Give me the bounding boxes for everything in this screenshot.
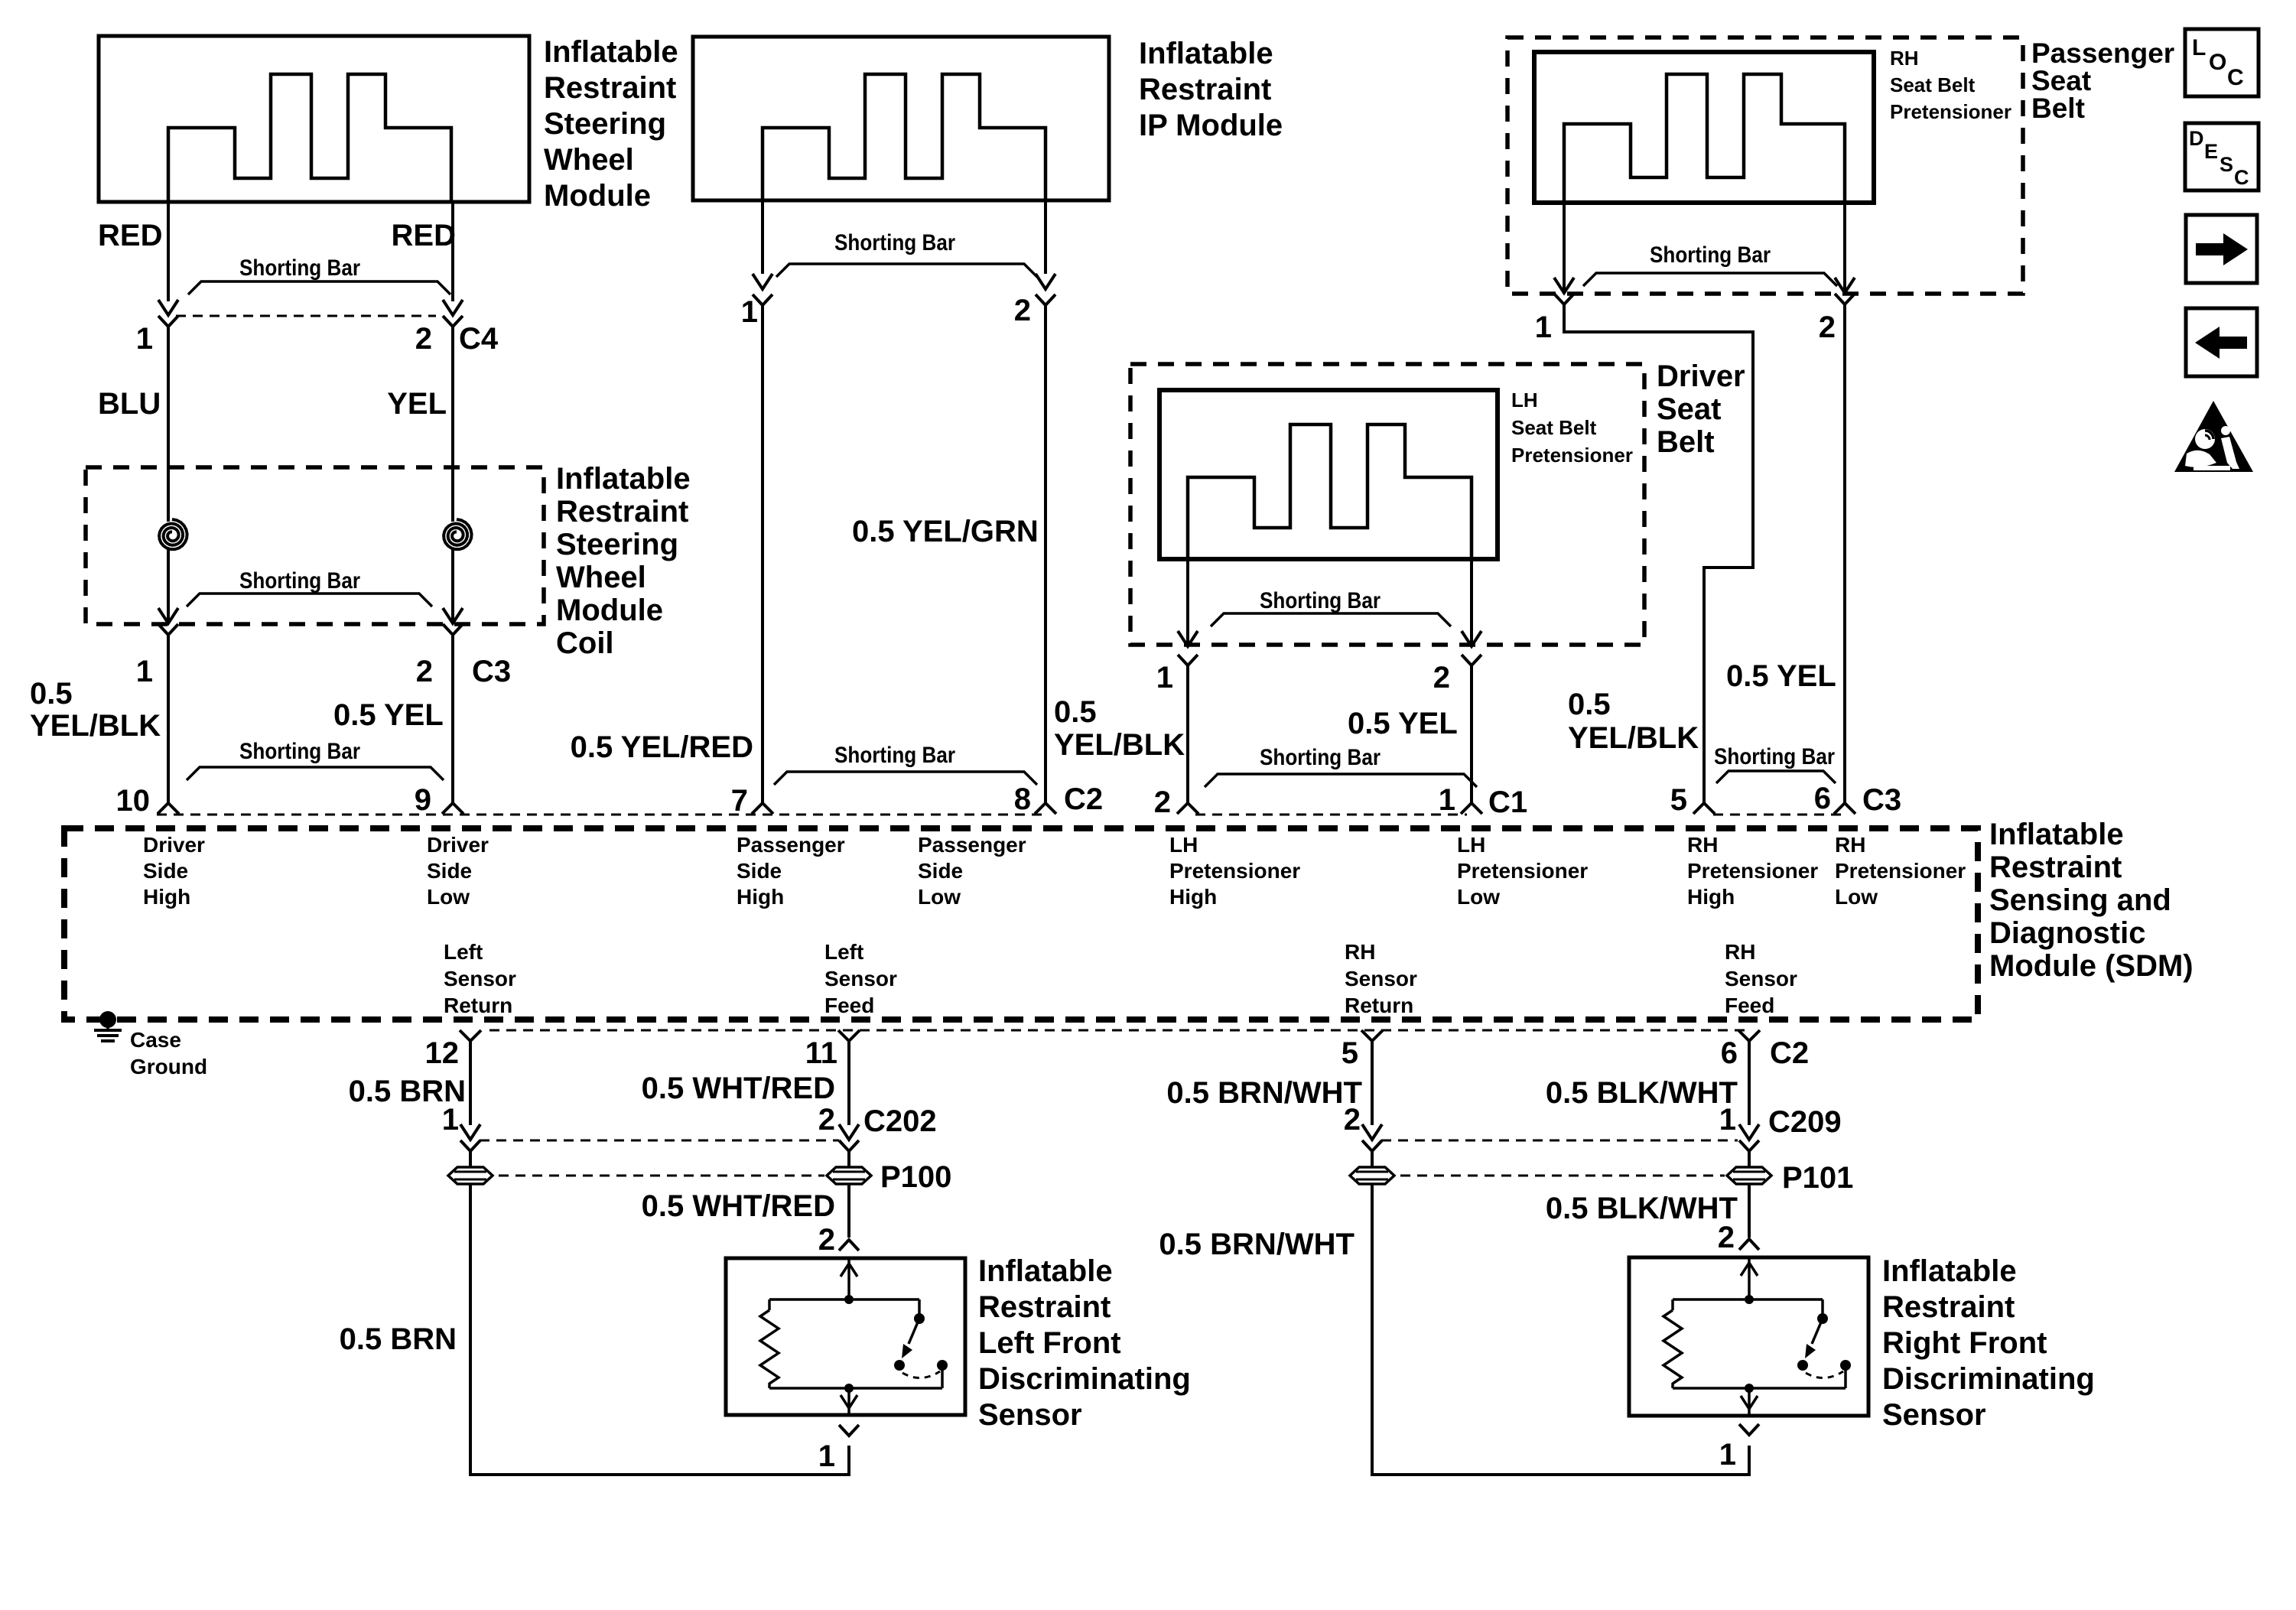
shorting bar symbol (LH pretensioner) — [1211, 613, 1451, 626]
wire 0.5 WHT/RED (P100 to sensor pin2) — [847, 1184, 850, 1238]
svg-text:2: 2 — [416, 655, 433, 688]
svg-text:Pretensioner: Pretensioner — [1890, 100, 2011, 123]
svg-text:Module (SDM): Module (SDM) — [1989, 949, 2194, 983]
sensor bottom lead with down arrow — [1748, 1388, 1751, 1416]
svg-text:Restraint: Restraint — [1139, 73, 1271, 106]
wire 0.5 YEL (RH pret pin2 to SDM pin6) — [1843, 304, 1846, 803]
icon box left arrow — [2186, 308, 2257, 376]
connector C4 dashed line — [176, 315, 436, 317]
switch moving contact dot — [894, 1360, 905, 1371]
wire 0.5 BLK/WHT (P101 to sensor pin2) — [1748, 1184, 1751, 1238]
svg-text:Ground: Ground — [130, 1055, 207, 1078]
svg-text:10: 10 — [116, 784, 151, 818]
svg-text:Side: Side — [427, 859, 472, 883]
svg-text:RED: RED — [98, 219, 162, 252]
P101 dashed line — [1400, 1175, 1725, 1177]
dashed box: Passenger Seat Belt — [1507, 37, 2023, 294]
svg-text:Pretensioner: Pretensioner — [1687, 859, 1818, 883]
svg-text:Discriminating: Discriminating — [1882, 1362, 2095, 1396]
switch right contact lead — [1844, 1365, 1847, 1388]
svg-text:Return: Return — [444, 994, 512, 1017]
svg-text:Wheel: Wheel — [544, 143, 634, 177]
svg-text:Sensor: Sensor — [1882, 1398, 1986, 1432]
chevron SDM pin12 — [460, 1030, 481, 1041]
sensor top branch — [769, 1298, 919, 1301]
svg-text:Seat Belt: Seat Belt — [1890, 73, 1976, 96]
arrow IP pin2 — [1036, 274, 1055, 289]
svg-text:Inflatable: Inflatable — [556, 462, 691, 496]
svg-text:Passenger: Passenger — [918, 833, 1026, 857]
wire (C209 pin2 to P101) — [1371, 1151, 1374, 1167]
coil symbol (driver low) — [444, 519, 472, 549]
arrow C4 pin1 — [158, 300, 178, 315]
svg-text:Wheel: Wheel — [556, 561, 646, 594]
squib (LH seat belt pretensioner) — [1188, 424, 1472, 559]
svg-text:YEL: YEL — [387, 387, 447, 421]
svg-text:C3: C3 — [472, 655, 511, 688]
chevron left sensor pin1 — [839, 1425, 859, 1436]
wire RED (driver low, module to C4 pin2) — [451, 202, 454, 301]
svg-text:0.5 BLK/WHT: 0.5 BLK/WHT — [1546, 1192, 1738, 1225]
svg-text:P101: P101 — [1782, 1161, 1853, 1195]
chevron SDM pin2 — [1177, 803, 1198, 814]
svg-text:Shorting Bar: Shorting Bar — [1714, 744, 1835, 769]
sensor box: Inflatable Restraint Right Front Discriminating Sensor — [1629, 1257, 1868, 1416]
svg-text:0.5: 0.5 — [1054, 695, 1097, 729]
svg-text:Shorting Bar: Shorting Bar — [834, 743, 955, 768]
dashed box: Inflatable Restraint Steering Wheel Module Coil — [86, 467, 544, 624]
svg-text:1: 1 — [1156, 661, 1173, 694]
chevron SDM pin1 — [1461, 803, 1482, 814]
svg-text:Inflatable: Inflatable — [1139, 37, 1273, 70]
wire 0.5 YEL/BLK (C3 to SDM pin10) — [167, 635, 170, 803]
svg-text:0.5 YEL: 0.5 YEL — [333, 698, 444, 732]
chevron IP pin1 — [753, 294, 772, 305]
module box: Inflatable Restraint IP Module — [693, 37, 1109, 200]
svg-text:Belt: Belt — [1657, 425, 1715, 459]
svg-text:RH: RH — [1725, 940, 1755, 964]
switch arm with arrow — [1812, 1319, 1823, 1344]
wire YEL (C4 to coil) — [451, 327, 454, 522]
svg-text:0.5 BRN/WHT: 0.5 BRN/WHT — [1159, 1228, 1355, 1261]
svg-text:Right Front: Right Front — [1882, 1326, 2047, 1360]
arrow C209 pin1 — [1739, 1124, 1759, 1140]
wire 0.5 BRN (pin12 to C202) — [469, 1041, 472, 1125]
svg-text:2: 2 — [818, 1223, 835, 1257]
chevron SDM pin6 — [1834, 803, 1855, 814]
svg-text:L: L — [2192, 35, 2206, 60]
svg-text:S: S — [2220, 153, 2233, 176]
wire 0.5 YEL/BLK (to SDM pin2) — [1186, 665, 1189, 803]
svg-text:C4: C4 — [459, 322, 499, 356]
svg-text:Pretensioner: Pretensioner — [1457, 859, 1588, 883]
svg-text:0.5: 0.5 — [1568, 688, 1611, 721]
ground symbol (case ground) — [106, 1020, 109, 1030]
shorting bar symbol (SDM 2-1) — [1205, 774, 1477, 787]
svg-text:2: 2 — [1819, 311, 1836, 344]
P100 dashed line — [499, 1175, 824, 1177]
grommet P101 left — [1350, 1167, 1394, 1184]
chevron left sensor pin2 — [839, 1240, 859, 1251]
svg-text:Passenger: Passenger — [737, 833, 845, 857]
svg-text:Restraint: Restraint — [978, 1290, 1111, 1324]
wire (IP module pin1) — [761, 200, 764, 274]
chevron C4 pin1 — [158, 316, 178, 327]
arrow LH pret pin2 — [1462, 631, 1481, 646]
arrow C4 pin2 — [443, 300, 463, 315]
svg-text:1: 1 — [442, 1103, 459, 1137]
arrow LH pret pin1 — [1178, 631, 1198, 646]
svg-text:Steering: Steering — [544, 107, 666, 141]
svg-text:0.5 BLK/WHT: 0.5 BLK/WHT — [1546, 1076, 1738, 1110]
svg-text:1: 1 — [136, 322, 153, 356]
shorting bar symbol (C4) — [188, 281, 450, 294]
svg-text:9: 9 — [415, 783, 431, 817]
svg-text:Diagnostic: Diagnostic — [1989, 916, 2145, 950]
svg-text:YEL/BLK: YEL/BLK — [30, 709, 161, 743]
sensor top lead with up arrow — [847, 1258, 850, 1299]
svg-text:C209: C209 — [1768, 1105, 1842, 1139]
svg-text:E: E — [2204, 140, 2218, 163]
chevron SDM pin6 C2 — [1738, 1030, 1760, 1041]
svg-text:P100: P100 — [880, 1160, 951, 1194]
grommet P100 right — [827, 1167, 871, 1184]
svg-text:Low: Low — [1457, 885, 1500, 909]
module box: RH Seat Belt Pretensioner — [1534, 52, 1874, 203]
svg-text:1: 1 — [741, 295, 758, 329]
chevron right sensor pin1 — [1739, 1424, 1759, 1435]
warning triangle icon (airbag) — [2174, 401, 2253, 472]
svg-text:1: 1 — [1719, 1103, 1736, 1137]
svg-text:0.5 BRN/WHT: 0.5 BRN/WHT — [1166, 1076, 1362, 1110]
svg-text:1: 1 — [136, 655, 153, 688]
connector C202 dashed line — [480, 1140, 839, 1142]
chevron RH pret pin2 — [1835, 294, 1855, 304]
module box: LH Seat Belt Pretensioner — [1159, 390, 1498, 559]
icon box DESC — [2185, 123, 2259, 190]
junction dot top — [844, 1295, 854, 1304]
switch arm with arrow — [909, 1319, 919, 1344]
svg-text:Driver: Driver — [1657, 359, 1745, 393]
svg-text:6: 6 — [1721, 1036, 1738, 1070]
shorting bar symbol (SDM 10-9) — [187, 767, 444, 780]
wire (LH pretensioner pin2) — [1470, 559, 1473, 644]
switch right contact lead — [941, 1365, 944, 1388]
chevron SDM pin10 — [158, 803, 179, 814]
switch fixed contact dot — [914, 1313, 925, 1324]
svg-text:High: High — [143, 885, 190, 909]
svg-text:Side: Side — [918, 859, 963, 883]
shorting bar symbol (SDM 5-6) — [1716, 771, 1836, 783]
svg-text:0.5 YEL/GRN: 0.5 YEL/GRN — [852, 515, 1039, 548]
svg-text:RH: RH — [1835, 833, 1865, 857]
svg-text:Side: Side — [737, 859, 782, 883]
svg-text:Pretensioner: Pretensioner — [1169, 859, 1300, 883]
svg-text:2: 2 — [818, 1103, 835, 1137]
wire (RH pretensioner pin1) — [1563, 203, 1566, 294]
svg-text:Sensor: Sensor — [824, 967, 897, 990]
svg-text:Sensor: Sensor — [1725, 967, 1797, 990]
svg-text:C2: C2 — [1770, 1036, 1809, 1070]
svg-text:High: High — [737, 885, 784, 909]
svg-text:6: 6 — [1814, 782, 1831, 815]
svg-text:2: 2 — [415, 322, 432, 356]
svg-text:Coil: Coil — [556, 626, 614, 660]
resistor (parallel) — [768, 1299, 771, 1310]
arrow C202 pin2 — [839, 1124, 859, 1140]
svg-text:1: 1 — [1719, 1438, 1736, 1472]
chevron C202 pin2 — [839, 1140, 859, 1151]
icon box right arrow — [2186, 215, 2257, 283]
svg-text:Feed: Feed — [1725, 994, 1774, 1017]
svg-text:Pretensioner: Pretensioner — [1835, 859, 1966, 883]
chevron C4 pin2 — [443, 316, 463, 327]
icon box LOC — [2185, 29, 2259, 96]
svg-text:Return: Return — [1345, 994, 1413, 1017]
sensor top lead with up arrow — [1748, 1257, 1751, 1299]
junction dot bottom — [844, 1384, 854, 1393]
chevron IP pin2 — [1036, 294, 1055, 305]
svg-text:0.5 WHT/RED: 0.5 WHT/RED — [642, 1072, 835, 1105]
sensor bottom branch — [769, 1387, 942, 1390]
shorting bar symbol (coil) — [187, 594, 432, 607]
svg-text:0.5 BRN: 0.5 BRN — [340, 1322, 457, 1356]
svg-text:Driver: Driver — [427, 833, 489, 857]
case ground node (dot) — [99, 1011, 116, 1028]
wire 0.5 BRN/WHT (pin5 to C209) — [1371, 1041, 1374, 1125]
svg-text:Sensor: Sensor — [1345, 967, 1417, 990]
svg-text:5: 5 — [1670, 783, 1687, 817]
svg-text:Inflatable: Inflatable — [544, 35, 678, 69]
chevron SDM pin7 — [752, 803, 773, 814]
svg-text:1: 1 — [1439, 783, 1455, 817]
svg-text:Inflatable: Inflatable — [1882, 1254, 2017, 1288]
wire 0.5 BRN/WHT (P101 to sensor loop) — [1372, 1184, 1749, 1475]
wire 0.5 BLK/WHT (pin6 to C209) — [1748, 1041, 1751, 1125]
svg-text:High: High — [1687, 885, 1735, 909]
svg-text:LH: LH — [1511, 389, 1538, 411]
svg-text:LH: LH — [1169, 833, 1198, 857]
svg-text:Side: Side — [143, 859, 188, 883]
shorting bar symbol (RH pretensioner) — [1583, 273, 1837, 286]
svg-text:Shorting Bar: Shorting Bar — [1260, 745, 1381, 770]
svg-text:Passenger: Passenger — [2031, 37, 2174, 69]
svg-text:Pretensioner: Pretensioner — [1511, 444, 1633, 467]
svg-text:Shorting Bar: Shorting Bar — [239, 739, 360, 764]
svg-text:0.5 YEL: 0.5 YEL — [1348, 707, 1458, 740]
sensor top branch — [1673, 1298, 1823, 1301]
svg-text:High: High — [1169, 885, 1217, 909]
connector C3 dashed line — [1713, 814, 1842, 816]
module box: Inflatable Restraint Steering Wheel Module — [99, 36, 529, 202]
shorting bar symbol (IP module) — [776, 264, 1037, 277]
svg-text:Seat: Seat — [1657, 392, 1722, 426]
switch right contact dot — [937, 1360, 948, 1371]
svg-text:7: 7 — [731, 784, 748, 818]
svg-text:Shorting Bar: Shorting Bar — [239, 255, 360, 281]
svg-text:Seat: Seat — [2031, 65, 2091, 96]
svg-text:C202: C202 — [863, 1104, 937, 1138]
arrow IP pin1 — [753, 274, 772, 289]
svg-text:RH: RH — [1345, 940, 1375, 964]
coil symbol (driver high) — [159, 519, 187, 549]
svg-text:0.5 YEL/RED: 0.5 YEL/RED — [571, 730, 753, 764]
svg-text:O: O — [2209, 50, 2226, 75]
squib (IP module) — [763, 74, 1046, 200]
dashed box: Inflatable Restraint Sensing and Diagnostic Module (SDM) — [64, 828, 1978, 1020]
svg-text:C: C — [2227, 65, 2244, 90]
svg-text:Sensing and: Sensing and — [1989, 883, 2171, 917]
chevron right sensor pin2 — [1739, 1239, 1759, 1250]
chevron C209 pin2 — [1362, 1140, 1382, 1151]
arrow C3 pin1 — [158, 608, 178, 623]
arrow C202 pin1 — [460, 1124, 480, 1140]
switch travel dashed arc — [1806, 1371, 1843, 1378]
svg-text:Low: Low — [1835, 885, 1878, 909]
grommet P100 left — [448, 1167, 493, 1184]
chevron C202 pin1 — [460, 1140, 480, 1151]
squib (RH seat belt pretensioner) — [1564, 74, 1845, 203]
svg-text:Inflatable: Inflatable — [1989, 818, 2124, 851]
wire 0.5 YEL/RED (to SDM pin7) — [761, 305, 764, 803]
svg-text:Module: Module — [556, 594, 663, 627]
connector C209 dashed line — [1381, 1140, 1738, 1142]
wire 0.5 WHT/RED (pin11 to C202) — [847, 1041, 850, 1125]
arrow C3 pin2 — [443, 608, 463, 623]
svg-text:2: 2 — [1433, 661, 1450, 694]
switch fixed contact dot — [1817, 1313, 1828, 1324]
svg-text:Case: Case — [130, 1028, 181, 1052]
arrow RH pret pin2 — [1835, 278, 1855, 293]
wire (C202 pin1 to P100) — [469, 1151, 472, 1167]
svg-text:Sensor: Sensor — [978, 1398, 1082, 1432]
svg-text:C2: C2 — [1064, 782, 1103, 816]
chevron LH pret pin1 — [1178, 655, 1198, 665]
chevron C3 pin1 — [158, 624, 178, 635]
svg-text:11: 11 — [805, 1036, 837, 1070]
sensor bottom lead with down arrow — [847, 1388, 850, 1415]
svg-text:1: 1 — [818, 1439, 835, 1473]
wire (coil to C3 pin1) — [167, 549, 170, 621]
svg-text:Low: Low — [918, 885, 961, 909]
wire 0.5 YEL (to SDM pin1) — [1470, 665, 1473, 803]
arrow C209 pin2 — [1362, 1124, 1382, 1140]
resistor (parallel) — [1671, 1299, 1674, 1310]
sensor box: Inflatable Restraint Left Front Discriminating Sensor — [726, 1258, 965, 1415]
svg-text:Restraint: Restraint — [1989, 851, 2122, 884]
svg-text:C3: C3 — [1862, 783, 1901, 817]
wire 0.5 YEL/GRN then 0.5 YEL/BLK (to SDM pin8) — [1044, 305, 1047, 803]
svg-text:Restraint: Restraint — [544, 71, 676, 105]
svg-text:2: 2 — [1154, 785, 1171, 819]
svg-text:Low: Low — [427, 885, 470, 909]
svg-text:YEL/BLK: YEL/BLK — [1568, 721, 1699, 755]
svg-text:0.5: 0.5 — [30, 677, 73, 711]
svg-text:Shorting Bar: Shorting Bar — [239, 568, 360, 594]
svg-text:1: 1 — [1535, 311, 1552, 344]
svg-text:D: D — [2189, 127, 2204, 150]
shorting bar symbol (SDM 7-8) — [774, 772, 1037, 785]
chevron SDM pin11 — [838, 1030, 860, 1041]
sensor bottom branch — [1673, 1387, 1846, 1390]
svg-text:Seat Belt: Seat Belt — [1511, 416, 1597, 439]
wire (C209 pin1 to P101) — [1748, 1151, 1751, 1167]
squib (steering wheel module) — [168, 74, 451, 202]
svg-text:Left: Left — [444, 940, 483, 964]
svg-text:Shorting Bar: Shorting Bar — [1650, 242, 1771, 268]
wire (RH pretensioner pin2) — [1843, 203, 1846, 294]
svg-text:Discriminating: Discriminating — [978, 1362, 1191, 1396]
svg-text:Module: Module — [544, 179, 651, 213]
svg-text:2: 2 — [1718, 1221, 1735, 1254]
svg-text:RED: RED — [392, 219, 456, 252]
junction dot bottom — [1745, 1384, 1754, 1393]
chevron SDM pin8 — [1035, 803, 1056, 814]
svg-text:Left: Left — [824, 940, 863, 964]
svg-text:Sensor: Sensor — [444, 967, 516, 990]
wire 0.5 YEL/BLK (RH pret pin1 to SDM pin5, jogged) — [1564, 304, 1753, 803]
wire RED (driver high, module to C4 pin1) — [167, 202, 170, 301]
chevron SDM pin9 — [442, 803, 463, 814]
svg-text:Restraint: Restraint — [556, 495, 688, 529]
svg-text:Shorting Bar: Shorting Bar — [834, 230, 955, 255]
svg-text:C: C — [2234, 166, 2249, 189]
switch right contact dot — [1840, 1360, 1851, 1371]
svg-text:8: 8 — [1014, 782, 1031, 816]
svg-text:IP Module: IP Module — [1139, 109, 1283, 142]
chevron SDM pin5 C2 — [1361, 1030, 1383, 1041]
svg-text:C1: C1 — [1488, 785, 1527, 819]
svg-text:RH: RH — [1687, 833, 1718, 857]
svg-text:2: 2 — [1014, 294, 1031, 327]
connector C1 dashed line — [1195, 814, 1467, 816]
svg-text:Shorting Bar: Shorting Bar — [1260, 588, 1381, 613]
svg-text:Left Front: Left Front — [978, 1326, 1121, 1360]
connector C2 bottom dashed line — [489, 1029, 1751, 1032]
wire BLU (C4 to coil) — [167, 327, 170, 522]
grommet P101 right — [1727, 1167, 1771, 1184]
chevron C3 pin2 — [443, 624, 463, 635]
svg-text:BLU: BLU — [98, 387, 161, 421]
svg-text:0.5 WHT/RED: 0.5 WHT/RED — [642, 1189, 835, 1223]
svg-text:LH: LH — [1457, 833, 1485, 857]
svg-text:12: 12 — [425, 1036, 460, 1070]
wire (IP module pin2) — [1044, 200, 1047, 274]
svg-text:Steering: Steering — [556, 528, 678, 561]
arrow RH pret pin1 — [1554, 278, 1574, 293]
switch travel dashed arc — [902, 1371, 940, 1378]
switch moving contact dot — [1797, 1360, 1808, 1371]
svg-text:2: 2 — [1344, 1103, 1361, 1137]
svg-text:Belt: Belt — [2031, 93, 2085, 124]
svg-text:5: 5 — [1342, 1036, 1358, 1070]
svg-text:Restraint: Restraint — [1882, 1290, 2015, 1324]
dashed box: Driver Seat Belt — [1130, 364, 1644, 645]
wire 0.5 BRN (P100 to sensor loop) — [470, 1184, 849, 1475]
chevron SDM pin5 — [1693, 803, 1715, 814]
wire 0.5 YEL (C3 to SDM pin9) — [451, 635, 454, 803]
wire (C202 pin2 to P100) — [847, 1151, 850, 1167]
svg-text:Feed: Feed — [824, 994, 874, 1017]
svg-text:0.5 YEL: 0.5 YEL — [1726, 659, 1836, 693]
svg-text:Driver: Driver — [143, 833, 205, 857]
chevron RH pret pin1 — [1554, 294, 1574, 304]
svg-text:Inflatable: Inflatable — [978, 1254, 1113, 1288]
wire (LH pretensioner pin1) — [1186, 559, 1189, 644]
wire (coil to C3 pin2) — [451, 549, 454, 621]
svg-text:YEL/BLK: YEL/BLK — [1054, 728, 1185, 762]
chevron LH pret pin2 — [1462, 655, 1481, 665]
